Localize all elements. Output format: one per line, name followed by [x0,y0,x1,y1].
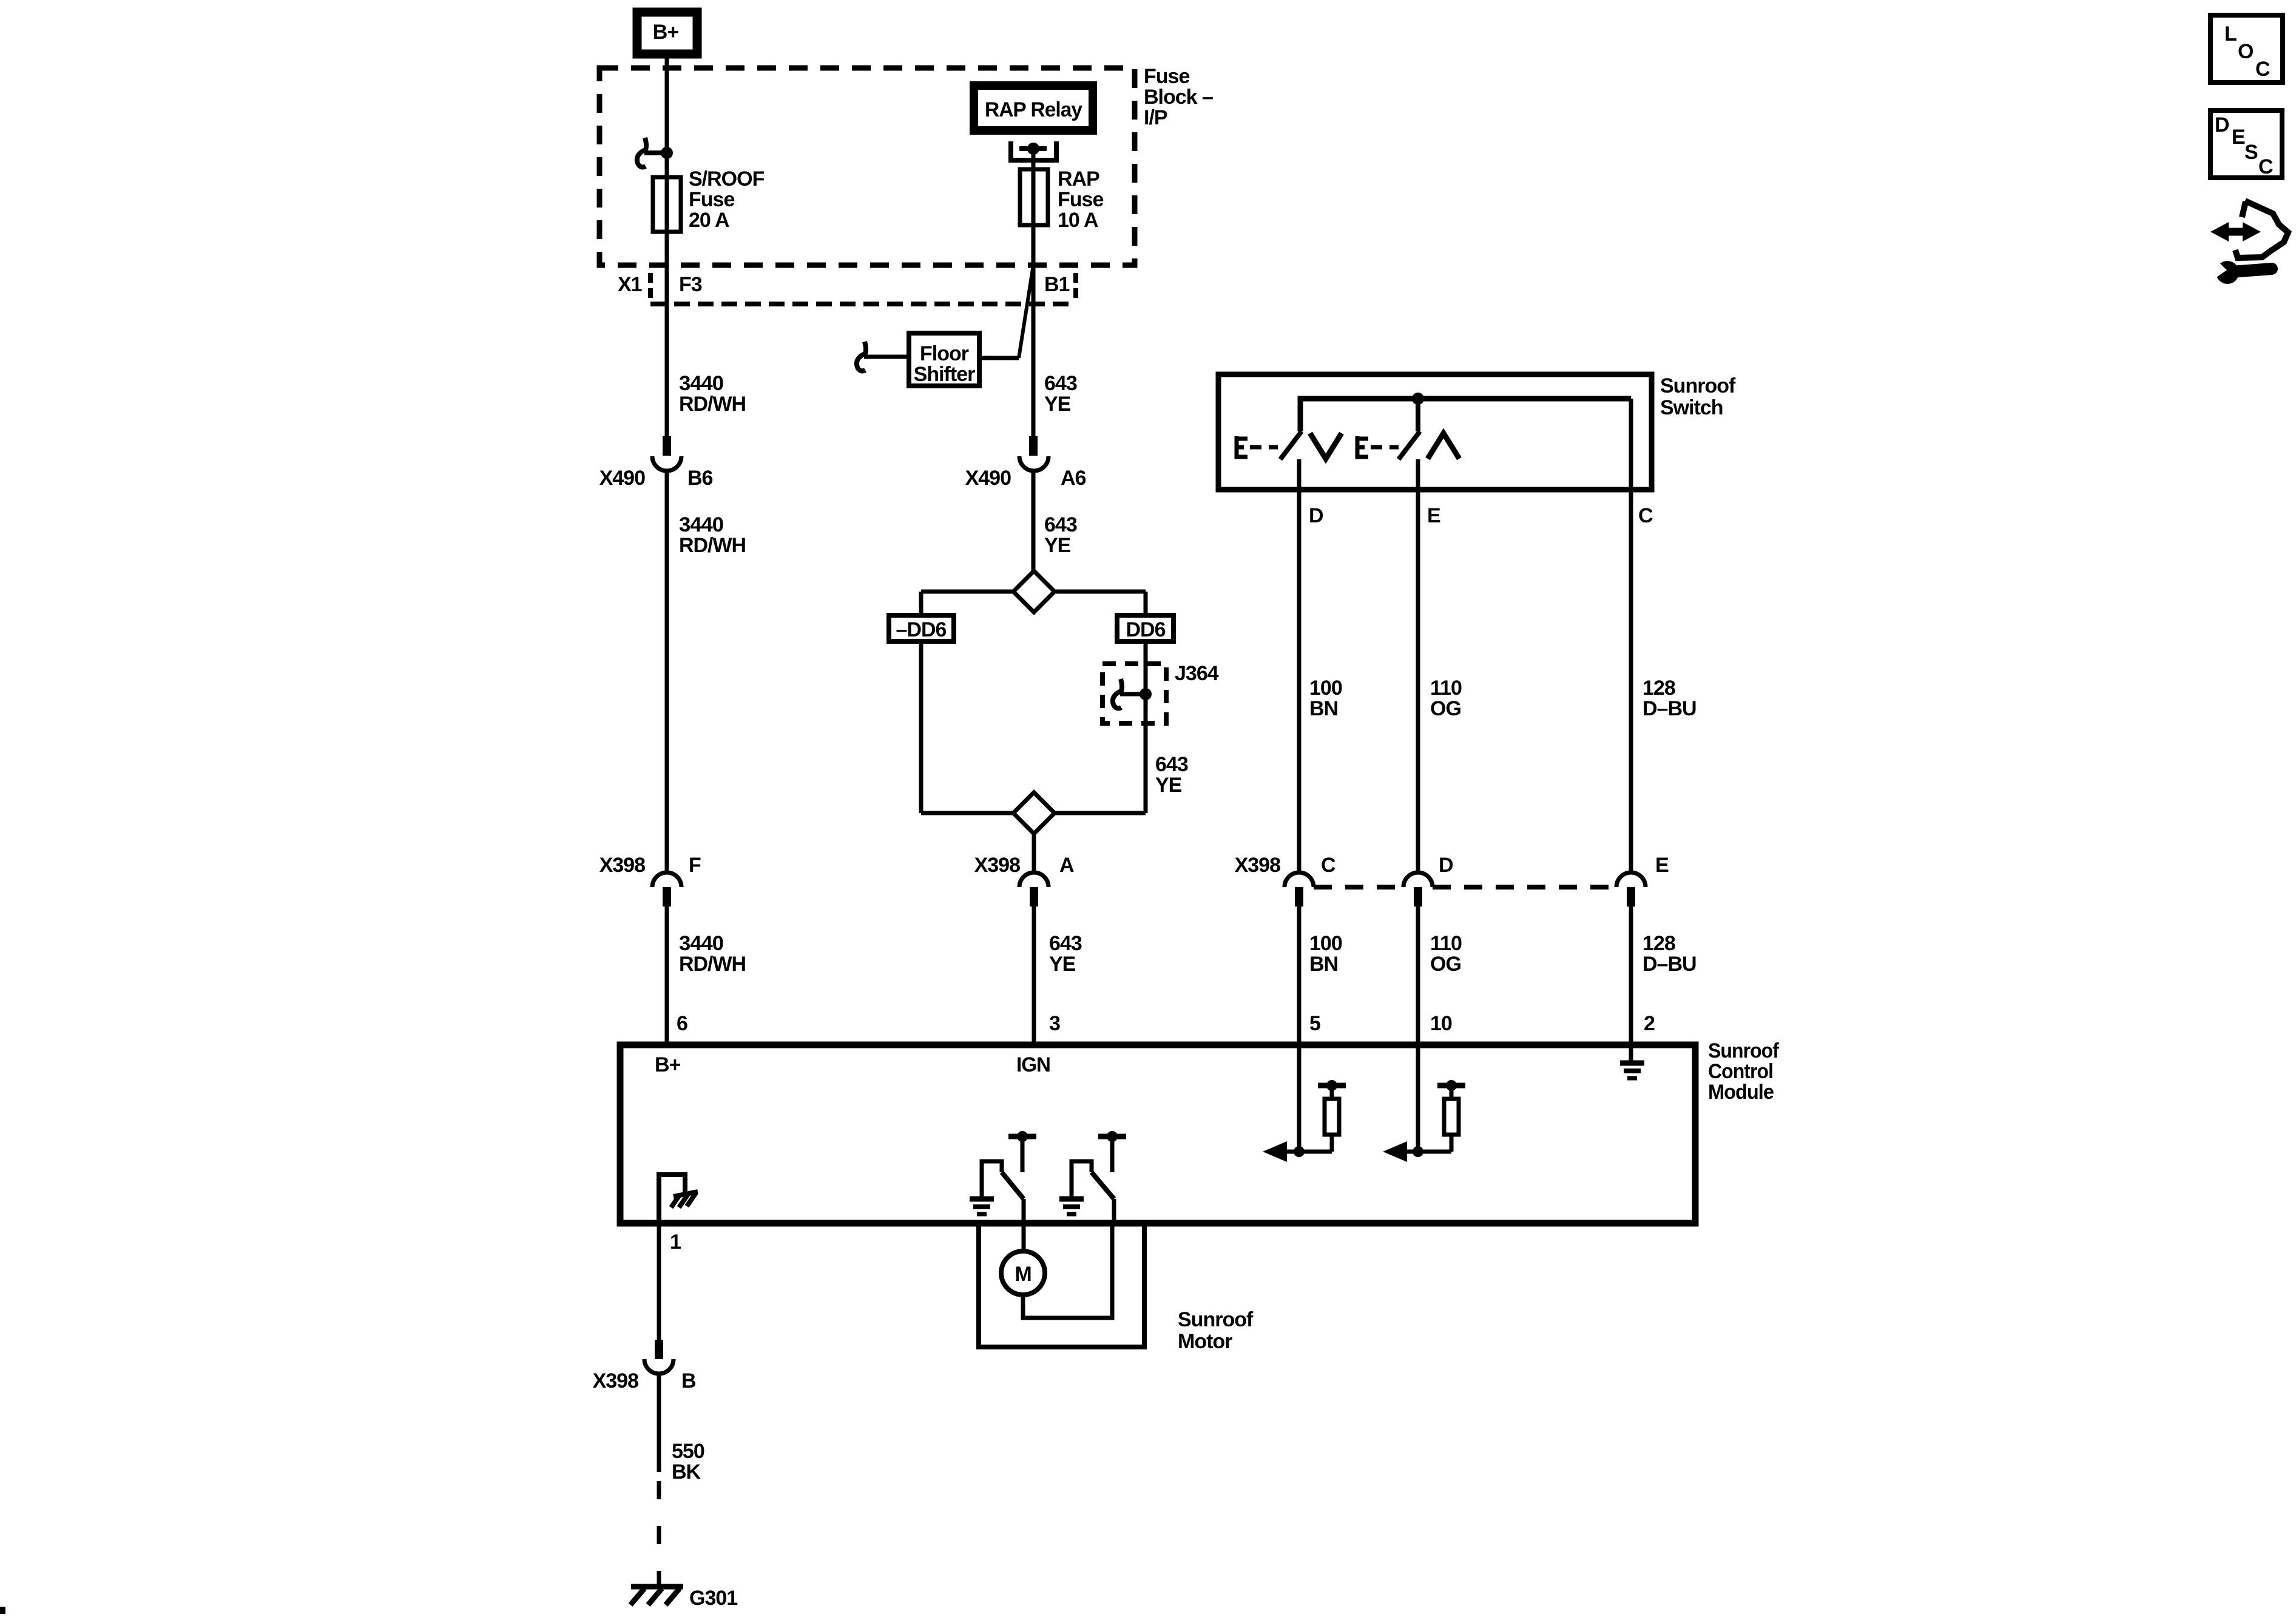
wire clip to junction [1120,692,1146,697]
switch contact E wire down to X398 D [1416,459,1420,873]
svg-text:128: 128 [1643,932,1675,955]
arrow out (pin 10) [1383,1141,1407,1162]
svg-text:E: E [2232,126,2245,149]
svg-text:IGN: IGN [1016,1053,1050,1076]
svg-text:B: B [681,1369,696,1393]
DESC icon box [2210,110,2282,178]
svg-text:RD/WH: RD/WH [679,953,746,976]
junction dot J364 [1140,688,1152,700]
svg-text:643: 643 [1044,372,1077,395]
svg-text:E: E [1655,854,1669,877]
svg-text:E: E [1427,504,1440,527]
connector X490 B6 terminal pin [663,436,671,456]
RAP relay contact T-bar [1019,146,1047,151]
connector X398 B terminal pin [655,1340,663,1359]
diagonal wire to B1 [1019,265,1033,358]
page period mark [0,1607,5,1614]
service icon: double arrow [2226,228,2246,236]
inline connector J364 dashed box [1102,664,1166,723]
svg-text:Fuse: Fuse [689,188,734,211]
arrow out (pin 5) [1263,1141,1287,1162]
module pin 1 internal stub [659,1175,685,1223]
Sunroof Motor box [979,1223,1144,1347]
module driver contact left: T-bar [1008,1134,1036,1139]
svg-text:C: C [2255,58,2270,81]
wire X398 D to module pin 10 [1416,906,1420,1152]
connector X398 E socket [1616,873,1646,887]
module driver right: ground [1059,1199,1084,1214]
module driver contact right: T-bar [1098,1134,1126,1139]
switch terminal C wire down to X398 E [1629,399,1633,873]
service icon: part outline [2235,201,2288,258]
svg-text:L: L [2224,22,2237,46]
svg-text:3440: 3440 [679,372,723,395]
svg-text:D: D [2215,113,2229,137]
svg-text:C: C [1321,854,1335,877]
wire RAP relay to RAP fuse down to X490 A6 [1032,149,1036,436]
svg-text:OG: OG [1430,697,1461,720]
module internal chassis ground (pin 1) [671,1192,698,1207]
RAP relay contact bracket [1011,141,1056,160]
destination box -DD6 [889,615,954,641]
module driver right: blade [1092,1172,1114,1199]
Sunroof Switch box [1218,374,1652,490]
switch E terminal glyph (up) [1356,436,1368,459]
svg-text:Shifter: Shifter [914,363,975,386]
svg-text:BN: BN [1309,953,1338,976]
svg-text:Switch: Switch [1660,396,1723,419]
wire Floor Shifter to RAP feed [982,356,1019,360]
svg-text:D: D [1309,504,1323,527]
connector X398 C socket [1285,873,1314,887]
fuse block I/P dashed outline [599,68,1135,265]
module internal ground (pin 2) [1620,1063,1644,1078]
Floor Shifter feed clip [857,342,866,371]
junction dot (pin 5) [1294,1146,1305,1157]
svg-text:BN: BN [1309,697,1338,720]
Floor Shifter box [909,333,979,386]
S/ROOF Fuse 20 A [653,177,681,232]
splice diamond (top) [1013,571,1055,612]
wire bus to DD6 [1144,592,1148,615]
svg-text:Module: Module [1708,1081,1774,1104]
module driver left: blade [1002,1172,1024,1199]
svg-text:M: M [1015,1263,1031,1286]
destination box DD6 [1117,615,1173,641]
switch common bus [1300,399,1631,431]
wire bus to -DD6 [919,592,923,615]
connector X398 F socket [652,873,681,887]
svg-text:S: S [2244,141,2258,164]
switch blade vertical (up) [1416,399,1420,431]
junction dot at S/ROOF fuse feed [661,147,673,159]
connector X490 B6 socket [652,456,681,471]
svg-text:–DD6: –DD6 [896,618,947,641]
svg-text:3440: 3440 [679,513,723,536]
chevron up [1428,433,1459,459]
Sunroof Control Module box [620,1045,1695,1223]
motor M circle [1001,1251,1045,1295]
dashed wire to G301 [657,1481,661,1586]
svg-text:10: 10 [1430,1012,1452,1035]
svg-text:B+: B+ [653,21,679,44]
switch contact D wire down to X398 C [1297,459,1302,873]
motor loop bottom [1023,1223,1112,1318]
svg-text:Floor: Floor [920,342,969,365]
svg-text:Sunroof: Sunroof [1178,1308,1254,1331]
svg-text:Block –: Block – [1144,86,1213,109]
svg-text:B6: B6 [687,467,713,490]
svg-text:YE: YE [1044,534,1071,557]
module internal resistor branch (pin 5) [1287,1085,1346,1152]
wire -DD6 down to lower bus [919,641,923,813]
J364 clip [1113,679,1122,708]
svg-text:A: A [1059,854,1074,877]
service icon: outline stub [2242,201,2246,217]
connector B1 dashed divider [1073,273,1078,299]
RAP Relay box [974,86,1093,130]
connector X398 A socket [1019,873,1048,887]
svg-text:D–BU: D–BU [1643,697,1697,720]
ground G301 [630,1587,683,1605]
svg-text:Control: Control [1708,1060,1773,1083]
svg-text:X398: X398 [974,854,1020,877]
svg-text:1: 1 [670,1230,681,1254]
wire X398 F to module pin 6 [665,906,669,1045]
splice diamond (bottom) [1013,792,1055,834]
wire X490 A6 to splice diamond [1032,471,1036,592]
switch blade (down) [1280,431,1302,459]
connector X398 C terminal pin [1295,887,1303,906]
svg-text:X490: X490 [965,467,1011,490]
svg-text:D–BU: D–BU [1643,953,1697,976]
svg-text:2: 2 [1644,1012,1655,1035]
svg-text:BK: BK [672,1460,701,1484]
resistor (pin 10) [1444,1099,1459,1135]
svg-text:G301: G301 [689,1587,737,1610]
module driver left: ground [970,1199,994,1214]
module driver right: NC bracket [1072,1161,1092,1197]
wire X398 B down [657,1374,661,1472]
connector X398 D terminal pin [1414,887,1422,906]
svg-text:RAP: RAP [1058,167,1099,191]
svg-text:110: 110 [1430,677,1462,700]
module driver left: NC bracket [982,1161,1002,1197]
svg-text:J364: J364 [1175,662,1219,685]
connector X398 B socket [644,1359,674,1374]
svg-text:S/ROOF: S/ROOF [689,167,765,191]
S/ROOF fuse feed clip [637,138,646,167]
svg-text:C: C [1638,504,1653,527]
svg-text:Fuse: Fuse [1144,65,1189,88]
chevron V (open arrow down) [1310,433,1342,459]
svg-text:RD/WH: RD/WH [679,534,746,557]
svg-text:3: 3 [1049,1012,1060,1035]
svg-text:Motor: Motor [1178,1330,1232,1353]
svg-text:3440: 3440 [679,932,723,955]
wire B+ to S/ROOF fuse and down to X490 B6 [665,58,669,436]
connector X490 A6 terminal pin [1029,436,1038,456]
svg-text:5: 5 [1309,1012,1320,1035]
splice branch bus (top) [921,590,1146,594]
svg-text:YE: YE [1049,953,1076,976]
dashed link E to blade (down) [1250,445,1278,450]
svg-text:B1: B1 [1044,273,1070,296]
dashed connector link C-D [1314,885,1403,890]
svg-text:550: 550 [672,1440,704,1463]
svg-text:100: 100 [1309,932,1342,955]
svg-text:RAP Relay: RAP Relay [985,98,1082,121]
svg-text:F3: F3 [679,273,702,296]
resistor (pin 5) [1325,1099,1339,1135]
svg-text:YE: YE [1155,774,1182,797]
svg-text:Fuse: Fuse [1058,188,1103,211]
RAP Fuse 10 A [1020,169,1048,225]
svg-text:O: O [2238,40,2254,63]
motor loop left [1022,1223,1026,1252]
svg-text:C: C [2258,155,2273,178]
dashed connector link D-E [1433,885,1616,890]
svg-text:Sunroof: Sunroof [1708,1039,1780,1062]
wire X398 C to module pin 5 [1297,906,1302,1152]
B+ power feed box [637,12,697,54]
wire clip to Floor Shifter [864,355,908,359]
svg-text:OG: OG [1430,953,1461,976]
splice bus (bottom) [921,811,1146,815]
wire X490 B6 to X398 F [665,471,669,873]
switch blade (up) [1399,431,1420,459]
wire clip to S/ROOF fuse [644,150,667,155]
svg-text:X1: X1 [618,273,642,296]
svg-text:YE: YE [1044,393,1071,416]
svg-text:DD6: DD6 [1126,618,1165,641]
junction dot (pin 10) [1413,1146,1423,1157]
wire module pin 1 down [657,1223,661,1340]
connector X398 D socket [1403,873,1433,887]
wire DD6 down through J364 to lower bus [1144,641,1148,813]
svg-text:100: 100 [1309,677,1342,700]
bus junction dot [1412,393,1424,405]
svg-text:A6: A6 [1061,467,1086,490]
connector X398 A terminal pin [1030,887,1038,906]
RAP relay contact junction dot [1027,143,1039,155]
wire diamond to X398 A [1032,834,1036,873]
svg-text:RD/WH: RD/WH [679,393,746,416]
svg-text:F: F [689,854,701,877]
svg-text:110: 110 [1430,932,1462,955]
dashed link E to blade (up) [1371,445,1399,450]
connector X398 F terminal pin [663,887,671,906]
connector X490 A6 socket [1019,456,1048,471]
svg-text:X490: X490 [599,467,645,490]
svg-text:128: 128 [1643,677,1675,700]
svg-text:X398: X398 [599,854,645,877]
service icon: wrench [2216,261,2239,284]
svg-text:B+: B+ [655,1053,681,1076]
svg-text:I/P: I/P [1144,106,1167,129]
svg-text:643: 643 [1049,932,1082,955]
svg-text:643: 643 [1155,753,1188,776]
fuse block connector dashed line [650,302,1076,306]
svg-text:10 A: 10 A [1058,209,1098,232]
svg-text:X398: X398 [1235,854,1280,877]
svg-text:D: D [1439,854,1453,877]
module internal resistor branch (pin 10) [1407,1085,1465,1152]
svg-text:Sunroof: Sunroof [1660,374,1736,397]
wire X398 A to module pin 3 [1032,906,1036,1045]
LOC icon box [2210,15,2283,83]
svg-text:643: 643 [1044,513,1077,536]
wire X398 E to module pin 2 [1629,906,1633,1063]
svg-text:20 A: 20 A [689,209,729,232]
module driver left: output to motor [1022,1199,1026,1223]
module driver right: output to motor [1112,1199,1116,1223]
svg-text:6: 6 [677,1012,687,1035]
connector X398 E terminal pin [1627,887,1635,906]
svg-text:X398: X398 [593,1369,638,1393]
switch E terminal glyph (down) [1235,436,1248,459]
connector X1 dashed divider [648,273,653,299]
